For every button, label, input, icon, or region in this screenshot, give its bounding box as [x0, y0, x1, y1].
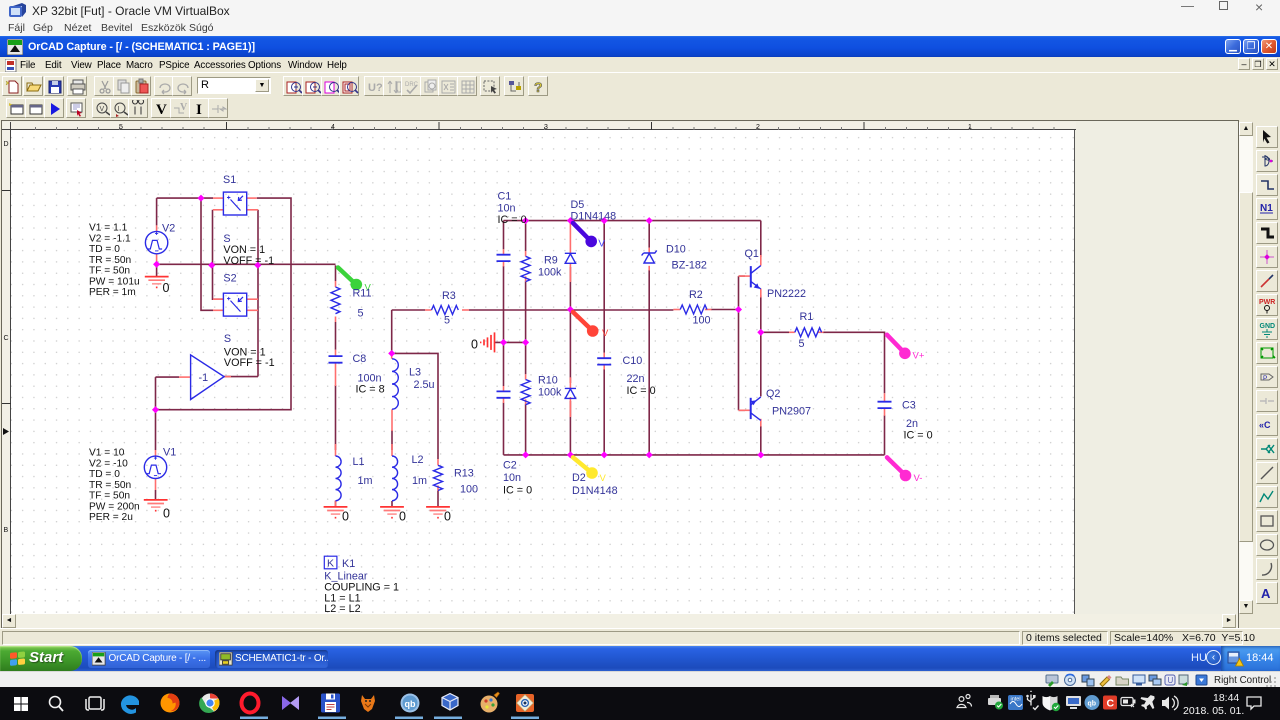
svg-text:10n: 10n	[503, 472, 521, 484]
svg-text:R1: R1	[800, 311, 814, 323]
svg-text:V: V	[600, 473, 607, 484]
svg-text:PN2222: PN2222	[767, 288, 806, 300]
svg-text:0: 0	[342, 510, 349, 524]
svg-text:R9: R9	[544, 255, 558, 267]
svg-text:L1: L1	[353, 456, 365, 468]
svg-text:10n: 10n	[498, 203, 516, 215]
svg-text:C1: C1	[498, 191, 512, 203]
svg-text:TD = 0: TD = 0	[89, 244, 120, 255]
svg-text:TR = 50n: TR = 50n	[89, 480, 131, 491]
svg-text:TF = 50n: TF = 50n	[89, 266, 130, 277]
svg-text:-1: -1	[199, 372, 209, 384]
svg-text:B: B	[4, 527, 9, 534]
svg-text:V: V	[99, 106, 104, 113]
svg-text:C3: C3	[902, 400, 916, 412]
svg-text:PER = 2u: PER = 2u	[89, 512, 133, 523]
svg-text:100k: 100k	[538, 387, 562, 399]
svg-text:VOFF = -1: VOFF = -1	[223, 255, 274, 267]
svg-text:V-: V-	[914, 473, 923, 484]
svg-text:TD = 0: TD = 0	[89, 469, 120, 480]
svg-text:V: V	[180, 102, 188, 113]
svg-text:R3: R3	[442, 290, 456, 302]
svg-text:100k: 100k	[538, 267, 562, 279]
svg-text:D2: D2	[572, 472, 586, 484]
svg-text:0: 0	[163, 281, 170, 295]
svg-text:GND: GND	[1260, 323, 1276, 330]
svg-text:A: A	[1261, 586, 1271, 601]
svg-text:I: I	[196, 102, 202, 118]
svg-text:PN2907: PN2907	[772, 406, 811, 418]
svg-text:0: 0	[399, 510, 406, 524]
svg-text:P: P	[1263, 375, 1267, 382]
svg-text:IC = 0: IC = 0	[904, 430, 933, 442]
svg-text:R13: R13	[454, 468, 474, 480]
svg-text:0: 0	[471, 338, 478, 352]
svg-text:D1N4148: D1N4148	[572, 485, 618, 497]
svg-text:PW = 200n: PW = 200n	[89, 501, 140, 512]
svg-text:C: C	[4, 335, 9, 342]
svg-text:BZ-182: BZ-182	[672, 260, 707, 272]
svg-text:S: S	[224, 333, 231, 345]
svg-text:2.5u: 2.5u	[414, 379, 435, 391]
svg-text:VOFF = -1: VOFF = -1	[224, 357, 275, 369]
svg-text:V1 = 1.1: V1 = 1.1	[89, 223, 128, 234]
svg-text:2018. 05. 01.: 2018. 05. 01.	[1183, 705, 1244, 717]
svg-text:V: V	[599, 239, 606, 250]
svg-text:IC = 0: IC = 0	[627, 385, 656, 397]
svg-text:100: 100	[693, 315, 711, 327]
svg-text:L3: L3	[409, 367, 421, 379]
svg-text:1m: 1m	[412, 475, 427, 487]
svg-text:V: V	[602, 328, 609, 339]
svg-text:D: D	[4, 141, 9, 148]
svg-text:D1N4148: D1N4148	[571, 210, 617, 222]
svg-text:V2 = -10: V2 = -10	[89, 458, 128, 469]
svg-text:L2 = L2: L2 = L2	[324, 603, 360, 613]
svg-text:I: I	[118, 106, 120, 113]
svg-text:D10: D10	[666, 244, 686, 256]
svg-text:U?: U?	[368, 82, 383, 94]
svg-text:R2: R2	[689, 289, 703, 301]
svg-text:K: K	[327, 558, 334, 570]
svg-text:PW = 101u: PW = 101u	[89, 276, 140, 287]
svg-text:5: 5	[799, 338, 805, 350]
svg-text:V+: V+	[913, 351, 925, 362]
svg-text:5: 5	[358, 308, 364, 320]
svg-text:PER = 1m: PER = 1m	[89, 287, 136, 298]
svg-text:C2: C2	[503, 460, 517, 472]
svg-text:R10: R10	[538, 375, 558, 387]
svg-text:V1: V1	[163, 447, 176, 459]
svg-text:Q1: Q1	[745, 248, 759, 260]
svg-text:IC = 0: IC = 0	[503, 485, 532, 497]
svg-text:5: 5	[444, 315, 450, 327]
svg-text:qb: qb	[1088, 701, 1097, 708]
svg-text:IC = 8: IC = 8	[356, 384, 385, 396]
svg-text:TF = 50n: TF = 50n	[89, 491, 130, 502]
svg-text:100: 100	[460, 484, 478, 496]
svg-text:Q2: Q2	[766, 388, 780, 400]
svg-text:18:44: 18:44	[1213, 692, 1239, 704]
svg-text:C8: C8	[353, 353, 367, 365]
svg-text:K1: K1	[342, 558, 355, 570]
svg-text:V2 = -1.1: V2 = -1.1	[89, 233, 131, 244]
svg-text:C10: C10	[623, 355, 643, 367]
svg-text:1m: 1m	[358, 475, 373, 487]
svg-text:N1: N1	[1260, 203, 1273, 214]
svg-text:V1 = 10: V1 = 10	[89, 448, 125, 459]
svg-text:«C: «C	[1259, 420, 1271, 430]
svg-text:0: 0	[163, 507, 170, 521]
svg-text:qb: qb	[405, 699, 416, 709]
svg-text:V2: V2	[162, 223, 175, 235]
svg-text:2n: 2n	[906, 418, 918, 430]
svg-text:TR = 50n: TR = 50n	[89, 255, 131, 266]
svg-text:?: ?	[534, 79, 543, 95]
svg-text:D5: D5	[571, 199, 585, 211]
svg-text:L2: L2	[412, 454, 424, 466]
svg-text:PWR: PWR	[1259, 299, 1275, 306]
svg-text:S2: S2	[223, 273, 236, 285]
svg-text:22n: 22n	[627, 373, 645, 385]
svg-text:U: U	[1168, 676, 1174, 685]
svg-text:S1: S1	[223, 174, 236, 186]
svg-text:0: 0	[444, 510, 451, 524]
svg-text:R11: R11	[353, 288, 372, 300]
svg-text:IC = 0: IC = 0	[498, 214, 527, 226]
svg-text:intel: intel	[1011, 697, 1021, 703]
svg-text:V: V	[156, 102, 167, 118]
svg-text:C: C	[1107, 698, 1115, 710]
